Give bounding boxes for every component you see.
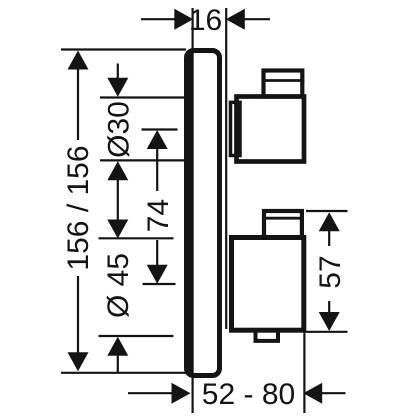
svg-text:74: 74: [142, 199, 175, 232]
svg-text:Ø 45: Ø 45: [102, 253, 135, 318]
svg-text:16: 16: [189, 4, 222, 37]
svg-text:57: 57: [314, 255, 347, 288]
svg-text:52 - 80: 52 - 80: [202, 378, 295, 411]
svg-text:Ø30: Ø30: [102, 101, 135, 158]
svg-text:156 / 156: 156 / 156: [62, 145, 95, 270]
